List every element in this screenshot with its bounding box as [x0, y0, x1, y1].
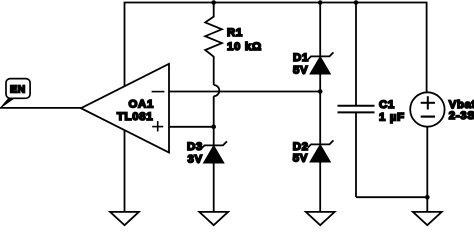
node junction +input/R1/D3: [211, 125, 216, 130]
svg-text:D2: D2: [293, 141, 309, 153]
capacitor C1: [338, 3, 405, 198]
svg-text:10 kΩ: 10 kΩ: [227, 41, 262, 53]
svg-text:5V: 5V: [293, 153, 308, 165]
wire op-amp output: [0, 107, 81, 109]
wire hop (R1 column over inverting-input wire): [214, 85, 220, 96]
node flag EN: [1, 79, 30, 108]
wire R1 bottom to + node: [213, 96, 215, 127]
svg-text:D1: D1: [293, 52, 309, 64]
diode D3 (zener 3V): [187, 127, 227, 212]
ground (D3): [199, 212, 228, 225]
svg-text:OA1: OA1: [129, 99, 155, 111]
svg-text:1 µF: 1 µF: [379, 112, 405, 124]
diode D2 (zener 5V): [293, 92, 334, 212]
wire non-inverting input to R1/D3 node: [169, 126, 214, 128]
svg-text:TL081: TL081: [117, 111, 153, 123]
svg-text:C1: C1: [379, 99, 395, 111]
node junction Vbat-bottom: [425, 195, 430, 200]
svg-text:5V: 5V: [293, 65, 308, 77]
svg-text:2-3Sa: 2-3Sa: [449, 110, 474, 122]
resistor R1: [205, 3, 262, 86]
wire op-amp V- to ground: [124, 130, 126, 212]
voltage source V1 (Vbat 2-3S): [410, 92, 474, 212]
ground (D2): [306, 212, 335, 225]
node junction -input/D1/D2: [318, 89, 323, 94]
wire top rail: [125, 3, 427, 93]
diode D1 (zener 5V): [293, 3, 333, 92]
svg-text:R1: R1: [227, 27, 243, 39]
svg-text:D3: D3: [187, 141, 203, 153]
svg-text:3V: 3V: [188, 154, 203, 166]
wire inverting input to D1/D2 node: [169, 91, 320, 93]
node junction R1-top: [211, 0, 216, 5]
wire bottom (C1 to Vbat-): [356, 196, 427, 198]
op-amp U1 (OA1 TL081): [81, 64, 169, 153]
ground (op-amp): [110, 212, 139, 225]
node junction D1-top: [318, 0, 323, 5]
svg-text:EN: EN: [10, 85, 26, 96]
ground (Vbat): [413, 212, 442, 225]
node junction C1-top: [354, 0, 359, 5]
